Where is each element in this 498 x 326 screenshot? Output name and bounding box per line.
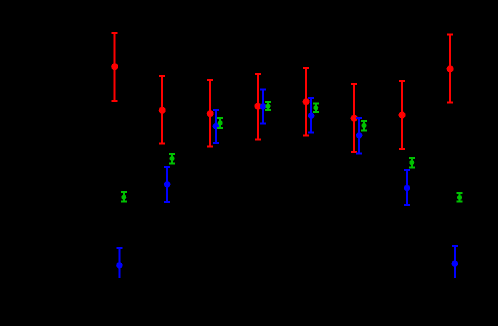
green series point 7 with error bar	[409, 157, 415, 168]
red series point 1 with error bar	[111, 32, 118, 102]
blue series point 1 with error bar	[116, 247, 122, 278]
blue series point 2 with error bar	[164, 166, 170, 203]
green series point 3 with error bar	[217, 117, 223, 129]
blue series point 6 with error bar	[356, 117, 362, 154]
green series point 8 with error bar	[457, 192, 463, 203]
red series point 8 with error bar	[447, 34, 454, 104]
green series point 1 with error bar	[121, 191, 127, 202]
green series point 4 with error bar	[265, 101, 271, 111]
red series point 4 with error bar	[254, 73, 261, 141]
red series point 5 with error bar	[303, 67, 310, 137]
blue series point 5 with error bar	[308, 97, 314, 133]
green series point 5 with error bar	[313, 103, 319, 114]
green series point 2 with error bar	[169, 153, 175, 164]
red series point 7 with error bar	[399, 80, 406, 150]
blue series point 3 with error bar	[213, 109, 219, 144]
red series point 6 with error bar	[351, 83, 358, 153]
blue series point 7 with error bar	[404, 169, 410, 206]
red series point 3 with error bar	[207, 79, 214, 147]
red series point 2 with error bar	[159, 75, 166, 145]
green series point 6 with error bar	[361, 120, 367, 132]
blue series point 4 with error bar	[260, 89, 266, 125]
blue series point 8 with error bar	[452, 245, 458, 278]
